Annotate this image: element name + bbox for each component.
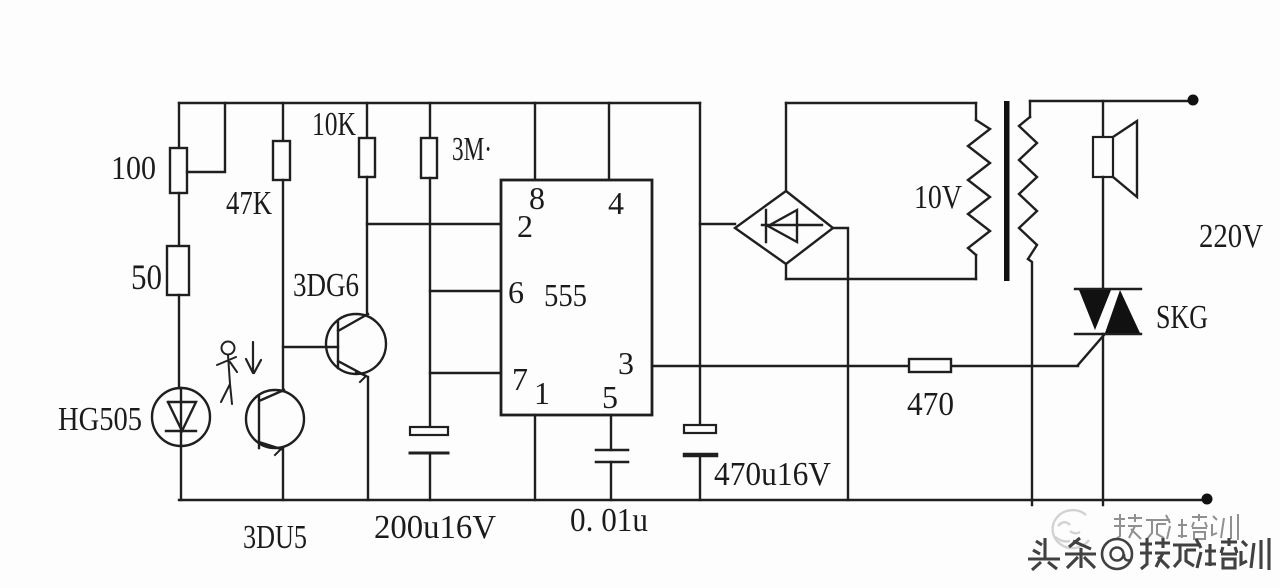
watermark text line2 头条@技成培训 xyxy=(1028,538,1269,570)
wire triac gate xyxy=(1078,335,1104,365)
wire left rail upper xyxy=(178,103,180,148)
op-amp U1 555 box xyxy=(501,180,652,415)
transformer T1 secondary xyxy=(1029,101,1031,117)
resistor R 470 xyxy=(909,359,951,372)
wire between 100 and 50 xyxy=(178,193,180,246)
wire pin8 top lead xyxy=(534,103,536,180)
svg-text:3: 3 xyxy=(618,345,634,381)
wire C470u to bottom rail xyxy=(699,457,701,500)
svg-text:0. 01u: 0. 01u xyxy=(570,502,648,539)
wire triac MT1 to bottom rail xyxy=(1102,334,1104,505)
wire pin1 to bottom rail xyxy=(534,415,536,500)
resistor R 3M xyxy=(421,138,437,178)
svg-text:6: 6 xyxy=(508,274,524,310)
wire top rail xyxy=(179,102,700,104)
node 220V top terminal xyxy=(1188,95,1199,106)
transformer T1 primary xyxy=(975,103,977,120)
svg-text:470: 470 xyxy=(907,386,954,423)
resistor R 50 xyxy=(167,246,189,295)
node 220V bottom terminal xyxy=(1202,494,1213,505)
wire 3DG6 emitter to bottom rail xyxy=(367,377,369,500)
svg-text:2: 2 xyxy=(517,208,533,244)
wire pin5 to C 0.01u xyxy=(610,415,612,450)
wire 10K top lead xyxy=(366,103,368,138)
phototransistor 3DU5 xyxy=(246,390,304,448)
wire bottom loop xyxy=(786,278,976,280)
wire pin4 top lead xyxy=(608,103,610,180)
capacitor C 200u16V xyxy=(410,427,448,435)
svg-text:1: 1 xyxy=(534,375,550,411)
transistor 3DG6 xyxy=(326,314,386,374)
wire right rail x700 xyxy=(699,103,701,425)
wire speaker to triac xyxy=(1102,177,1104,289)
wire bridge top to loop xyxy=(785,103,787,191)
wire bottom rail xyxy=(179,499,1207,501)
stick figure person xyxy=(217,342,237,405)
svg-text:10V: 10V xyxy=(914,179,962,216)
svg-text:50: 50 xyxy=(131,257,162,297)
svg-text:3DG6: 3DG6 xyxy=(293,267,359,304)
wire 3M down to C 200u xyxy=(429,178,431,427)
wire C200u to bottom rail xyxy=(429,453,431,500)
wire top right to 220V terminal xyxy=(1030,100,1193,102)
wire speaker top lead xyxy=(1102,101,1104,137)
wire bridge bottom xyxy=(785,264,787,279)
capacitor C 470u16V xyxy=(684,425,716,433)
watermark text line1 技成培训 xyxy=(1114,514,1238,540)
watermark logo circle xyxy=(1053,510,1089,548)
wire pin2 of 555 xyxy=(367,223,501,225)
svg-text:3DU5: 3DU5 xyxy=(243,519,307,556)
svg-text:HG505: HG505 xyxy=(58,401,142,438)
svg-text:7: 7 xyxy=(512,361,528,397)
wire pin7 of 555 xyxy=(430,372,501,374)
svg-text:5: 5 xyxy=(602,379,618,415)
wire to bridge left vertex xyxy=(700,223,735,225)
wire 3DU5 node to 3DG6 base xyxy=(283,346,338,348)
svg-text:200u16V: 200u16V xyxy=(374,509,496,546)
svg-text:47K: 47K xyxy=(226,185,272,222)
resistor R 100 xyxy=(170,148,187,193)
svg-text:555: 555 xyxy=(544,277,587,313)
wire 100 right tap xyxy=(187,103,225,172)
svg-text:470u16V: 470u16V xyxy=(714,456,831,493)
wire 3M top lead xyxy=(429,103,431,138)
svg-text:SKG: SKG xyxy=(1156,299,1208,336)
arrow light indicator xyxy=(246,342,261,373)
diode bridge D1 xyxy=(735,191,833,264)
wire 10K to 3DG6 collector xyxy=(366,177,368,314)
svg-text:10K: 10K xyxy=(312,106,356,143)
svg-text:220V: 220V xyxy=(1199,218,1263,255)
svg-text:100: 100 xyxy=(111,150,156,187)
speaker LS1 xyxy=(1093,137,1113,177)
wire pin6 of 555 xyxy=(430,290,501,292)
svg-text:4: 4 xyxy=(608,185,624,221)
photodiode HG505 xyxy=(152,388,210,446)
wire 47K to 3DU5 collector xyxy=(282,180,284,391)
resistor R 47K xyxy=(273,141,290,180)
svg-text:3M·: 3M· xyxy=(452,131,492,168)
wire bridge right output xyxy=(833,228,848,500)
wire HG505 to bottom rail xyxy=(180,446,182,500)
wire 3DU5 emitter to bottom rail xyxy=(282,448,284,500)
wire pin3 of 555 to gate xyxy=(652,365,1078,367)
wire C0.01u to bottom rail xyxy=(610,462,612,500)
resistor R 10K xyxy=(359,138,375,177)
wire 47K top lead xyxy=(282,103,284,141)
triac SKG xyxy=(1075,289,1141,334)
transformer core xyxy=(1004,101,1010,281)
wire top loop xyxy=(786,102,976,104)
wire 50 to HG505 xyxy=(178,295,180,388)
capacitor C 0.01u xyxy=(596,450,628,462)
